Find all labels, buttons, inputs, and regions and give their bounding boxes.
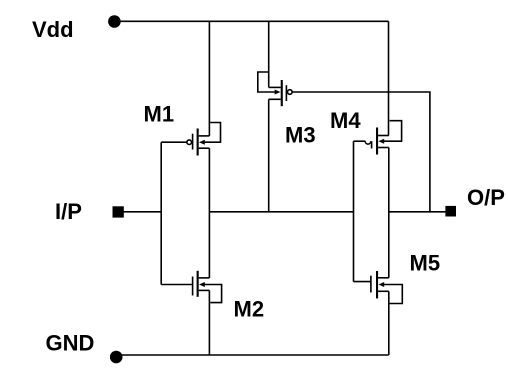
svg-text:M5: M5 [410, 250, 441, 275]
wire Vdd to M4 drain [388, 21, 390, 135]
transistor M1 [187, 123, 221, 156]
svg-text:O/P: O/P [467, 185, 505, 210]
wire M4 gate [354, 140, 366, 142]
wire M1 drain to Vdd [208, 21, 210, 136]
wire output node to O/P [389, 211, 446, 213]
svg-text:GND: GND [46, 331, 95, 356]
node wire to M4 gate column [209, 211, 353, 213]
wire to M5 gate [354, 281, 371, 283]
wire M4 source to M5 drain [388, 148, 390, 278]
wire M2 source to GND [208, 290, 210, 355]
wire M5 source to GND [388, 291, 390, 355]
svg-text:M3: M3 [285, 122, 316, 147]
transistor M4 [365, 121, 401, 155]
wire M3 gate to output node [292, 92, 430, 212]
svg-text:M1: M1 [144, 102, 175, 127]
wire M2 gate [161, 284, 192, 286]
wire M1 source to M2 drain [208, 148, 210, 278]
svg-text:Vdd: Vdd [32, 17, 74, 42]
svg-text:M4: M4 [330, 108, 361, 133]
wire I/P to gate column [124, 211, 162, 213]
GND rail [116, 354, 389, 356]
svg-text:M2: M2 [234, 297, 265, 322]
gate column M1-M2 [160, 142, 162, 284]
O/P terminal [445, 206, 456, 217]
GND terminal dot [110, 351, 123, 364]
wire M3 source to node [268, 99, 270, 212]
wire M1 gate [161, 141, 187, 143]
transistor M2 [192, 271, 222, 303]
svg-text:I/P: I/P [55, 199, 82, 224]
M4-M5 gate column [353, 141, 355, 281]
transistor M5 [370, 271, 402, 304]
I/P terminal [113, 206, 124, 217]
Vdd terminal dot [108, 15, 121, 28]
Vdd rail [114, 20, 388, 22]
transistor M3 (mirrored) [258, 72, 292, 106]
wire M3 drain to Vdd [268, 21, 270, 87]
